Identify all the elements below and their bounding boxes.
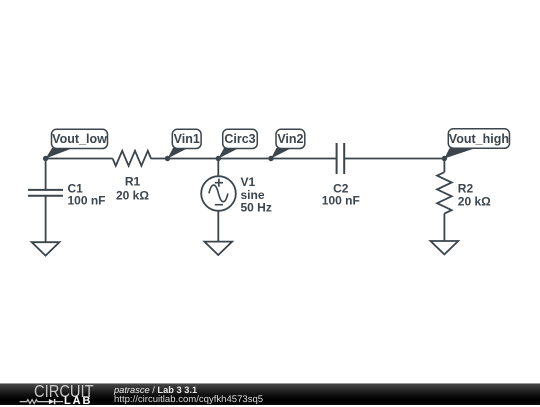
svg-text:Vin2: Vin2 bbox=[277, 132, 303, 146]
flag Vin2 bbox=[271, 129, 305, 158]
svg-text:50 Hz: 50 Hz bbox=[241, 201, 272, 215]
label C2 value bbox=[322, 182, 360, 208]
svg-text:20 kΩ: 20 kΩ bbox=[116, 189, 149, 203]
svg-text:100 nF: 100 nF bbox=[68, 193, 106, 207]
wire bbox=[45, 159, 47, 190]
label C1 value bbox=[68, 182, 106, 208]
node Vin2 bbox=[268, 156, 273, 161]
svg-text:Vout_high: Vout_high bbox=[449, 132, 509, 146]
wire bbox=[344, 158, 444, 160]
svg-text:Circ3: Circ3 bbox=[224, 132, 255, 146]
wire bbox=[217, 210, 219, 241]
svg-text:R1: R1 bbox=[125, 175, 141, 189]
wire bbox=[443, 159, 445, 173]
wire bbox=[443, 214, 445, 241]
wire bbox=[46, 158, 113, 160]
resistor R1 bbox=[113, 151, 151, 166]
node Vin1 bbox=[165, 156, 170, 161]
ground bbox=[204, 242, 232, 255]
url text bbox=[114, 395, 263, 404]
wire bbox=[151, 158, 337, 160]
source V1 bbox=[201, 176, 236, 211]
label R1 value bbox=[116, 175, 149, 203]
capacitor C1 bbox=[28, 190, 63, 196]
flag Circ3 bbox=[218, 129, 257, 158]
wire bbox=[45, 196, 47, 242]
node Circ3 bbox=[216, 156, 221, 161]
svg-text:Vout_low: Vout_low bbox=[52, 132, 107, 146]
ground bbox=[431, 241, 459, 254]
CircuitLab logo squiggle bbox=[19, 398, 65, 406]
CircuitLab logo LAB bbox=[64, 396, 92, 407]
resistor R2 bbox=[437, 172, 452, 213]
svg-text:Vin1: Vin1 bbox=[174, 132, 200, 146]
node Vout_low bbox=[43, 156, 48, 161]
svg-text:100 nF: 100 nF bbox=[322, 193, 360, 207]
label V1 value bbox=[241, 175, 272, 215]
node Vout_high bbox=[442, 156, 447, 161]
flag Vout_low bbox=[46, 129, 108, 158]
wire bbox=[217, 159, 219, 177]
svg-text:20 kΩ: 20 kΩ bbox=[458, 194, 491, 208]
attribution text bbox=[114, 386, 197, 395]
flag Vout_high bbox=[444, 129, 509, 159]
flag Vin1 bbox=[168, 129, 202, 158]
label R2 value bbox=[458, 182, 491, 209]
ground bbox=[32, 242, 60, 255]
CircuitLab logo CIRCUIT bbox=[34, 384, 94, 399]
capacitor C2 bbox=[337, 143, 345, 174]
